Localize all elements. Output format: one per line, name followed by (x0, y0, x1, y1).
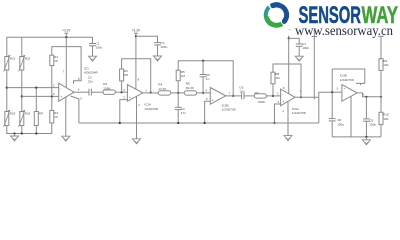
svg-text:+3.3V: +3.3V (62, 29, 71, 33)
capacitor C8 (329, 118, 336, 120)
ground (bridge) (14, 134, 16, 137)
svg-text:22n: 22n (88, 80, 93, 84)
wire bottom rail (bridge) (7, 123, 52, 134)
wire R1 bottom (51, 66, 53, 97)
svg-text:R23: R23 (10, 112, 16, 116)
svg-text:+: + (212, 99, 214, 103)
svg-text:2: 2 (123, 88, 125, 92)
logo swirl teal arc (266, 4, 279, 24)
ground (IC1) (62, 136, 70, 141)
svg-text:47n: 47n (181, 111, 186, 115)
svg-text:AD620AR: AD620AR (84, 71, 99, 75)
svg-text:7: 7 (229, 91, 231, 95)
svg-text:R7: R7 (255, 91, 259, 95)
svg-text:R22: R22 (25, 57, 31, 61)
svg-text:1/2AD708: 1/2AD708 (340, 78, 354, 82)
logo swirl gap (268, 4, 274, 12)
wire IC1 pin 7 supply (65, 37, 67, 87)
logo swirl gap 2 (279, 19, 285, 27)
wire IC2B output (226, 95, 242, 97)
svg-text:100n: 100n (161, 45, 168, 49)
svg-text:3: 3 (53, 92, 55, 96)
wire +3.3V rail to C7 (289, 38, 300, 43)
wire C3 to ground (157, 45, 159, 56)
wire IC2B pin 5 to bus (205, 101, 211, 123)
svg-text:10K: 10K (383, 63, 388, 67)
svg-text:+: + (282, 100, 284, 104)
svg-text:1: 1 (363, 92, 365, 96)
wire R4 to R6 node (171, 92, 184, 94)
wire IC3A feedback loop (272, 84, 274, 96)
svg-text:-: - (60, 86, 61, 90)
svg-text:1M: 1M (181, 74, 186, 78)
wire R6 to IC2B pin 6 (197, 92, 211, 94)
wire IC3B top rail (332, 69, 365, 83)
svg-text:3: 3 (123, 96, 125, 100)
ground (output) (365, 137, 367, 140)
svg-text:8: 8 (138, 78, 140, 82)
svg-text:1K: 1K (54, 115, 58, 119)
svg-text:4: 4 (138, 103, 140, 107)
ground (C3) (154, 56, 162, 61)
wire IC2A pin 8 supply (135, 36, 137, 89)
svg-text:1: 1 (145, 88, 147, 92)
svg-text:RP: RP (39, 112, 43, 116)
wire node B to IC1 pin 3 (22, 95, 59, 97)
wire C6 to R7 (244, 95, 254, 97)
capacitor C4 (177, 93, 179, 107)
ground (C7) (295, 56, 303, 61)
wire R7 to IC3A pin 2 (267, 95, 281, 97)
resistor R3 (bridge divider) (50, 111, 54, 124)
svg-text:+: + (60, 95, 62, 99)
svg-text:82.3K: 82.3K (186, 86, 195, 90)
svg-text:1/2AD708: 1/2AD708 (292, 111, 306, 115)
logo swirl blue arc (273, 5, 287, 21)
wire +3.3V top rail (7, 37, 93, 56)
svg-text:-: - (129, 87, 130, 91)
wire C7 to ground (298, 46, 300, 56)
wire IC3A pin 4 to ground (287, 101, 289, 135)
wire IC2A pin 4 to ground (136, 96, 138, 139)
resistor R22 (20, 57, 24, 71)
wire R2 to IC2A pin 2 (115, 91, 127, 93)
svg-text:2: 2 (277, 92, 279, 96)
resistor R6 (184, 91, 196, 95)
op-amp IC3B 1/2AD708 (342, 85, 357, 102)
capacitor C9 (365, 97, 367, 119)
wire C8 column (331, 69, 333, 118)
wire R21 to node A (6, 70, 8, 112)
svg-text:200K: 200K (103, 86, 111, 90)
wire C1 to ground (92, 46, 94, 56)
node reference bus (79, 122, 319, 124)
svg-text:-: - (282, 92, 283, 96)
resistor R8 (IC3A feedback 1M) (271, 72, 275, 84)
svg-text:100n: 100n (369, 123, 376, 127)
capacitor C3 (154, 42, 161, 44)
resistor R1 (gain) (50, 55, 54, 65)
svg-text:7: 7 (63, 69, 65, 73)
svg-text:+: + (129, 95, 131, 99)
svg-text:3: 3 (277, 100, 279, 104)
wire bus riser / step (319, 92, 332, 123)
resistor R23 (5, 112, 9, 126)
capacitor C2 (88, 89, 90, 96)
wire R22 to node B (21, 70, 23, 112)
wire bottom rail (output) (332, 136, 381, 138)
svg-text:6: 6 (206, 89, 208, 93)
resistor R21 (5, 57, 9, 71)
wire IC3B pin 5 input (332, 91, 342, 93)
capacitor C7 (296, 43, 303, 45)
svg-text:+3.3V: +3.3V (132, 29, 141, 33)
svg-text:5: 5 (206, 97, 208, 101)
svg-text:2: 2 (53, 84, 55, 88)
svg-text:1n: 1n (206, 77, 210, 81)
power +3.3V (R9) (378, 35, 384, 37)
wire R10 to bottom rail (380, 125, 382, 137)
svg-text:14.7K: 14.7K (158, 87, 167, 91)
ground (IC2A) (133, 139, 141, 144)
wire IC3B output (357, 93, 381, 97)
svg-text:R24: R24 (25, 112, 31, 116)
wire R9 to output node (380, 70, 382, 96)
svg-text:1M: 1M (124, 73, 129, 77)
svg-text:-: - (212, 90, 213, 94)
svg-text:1/2AD708: 1/2AD708 (144, 107, 158, 111)
wire R3 top to pin3 node (51, 96, 53, 110)
svg-text:1M: 1M (275, 76, 280, 80)
op-amp IC2A 1/2AD708 (127, 85, 142, 102)
svg-text:100n: 100n (96, 45, 103, 49)
wire IC1 pin 5 to bus (71, 96, 79, 123)
wire +3.3V rail to C3 (136, 36, 158, 42)
wire C2 to R2 (91, 91, 103, 93)
svg-text:100n: 100n (337, 122, 344, 126)
svg-text:8: 8 (283, 86, 285, 90)
resistor R7 (254, 94, 266, 98)
wire IC1 pin 4 to ground (65, 97, 67, 136)
resistor R9 (379, 59, 383, 71)
wire node A to IC1 pin 2 (7, 87, 59, 89)
ground (IC3A) (284, 136, 292, 141)
resistor R4 (158, 91, 171, 95)
wire IC3A output (295, 96, 319, 98)
svg-text:+: + (344, 87, 346, 91)
svg-text:1/2AD708: 1/2AD708 (222, 108, 236, 112)
op-amp IC3A 1/2AD708 (281, 89, 295, 106)
wire IC3A pin 8 supply (288, 38, 290, 93)
wire IC3B pin 4 down (350, 96, 352, 137)
op-amp IC1 AD620AR (59, 83, 74, 101)
resistor R24 (20, 112, 24, 126)
svg-text:100n: 100n (302, 46, 309, 50)
svg-text:5: 5 (80, 97, 82, 101)
wire R22 top (21, 37, 23, 56)
capacitor C1 (89, 43, 96, 45)
svg-text:1K: 1K (54, 59, 58, 63)
resistor R5 (IC2B feedback 1M) (176, 70, 180, 81)
wire IC2A output (143, 92, 158, 94)
resistor R10 (379, 112, 383, 124)
wire IC2A pin 3 (120, 100, 128, 123)
wire R1 loop to pin 8 (52, 47, 81, 84)
op-amp IC2B 1/2AD708 (210, 88, 225, 105)
svg-text:200K: 200K (258, 100, 266, 104)
svg-text:5: 5 (337, 87, 339, 91)
power +3.3V (stage 3) (288, 36, 290, 39)
svg-text:6: 6 (78, 88, 80, 92)
wire RP column (35, 88, 37, 112)
ground (C1) (89, 56, 97, 61)
svg-text:4: 4 (282, 110, 284, 114)
svg-text:R21: R21 (10, 57, 16, 61)
logo swirl green arc (267, 18, 282, 25)
wire +3.3V drop (IC3B) (313, 30, 315, 100)
capacitor C5 (202, 61, 204, 74)
wire IC1 output (74, 91, 89, 93)
wire IC2B feedback loop (177, 81, 179, 93)
wire output node to R10 (380, 97, 382, 113)
svg-text:10K: 10K (383, 117, 388, 121)
resistor R3 (IC2A feedback 1M) (120, 69, 124, 81)
svg-text:www.sensorway.cn: www.sensorway.cn (295, 23, 393, 38)
svg-text:™: ™ (288, 28, 291, 32)
resistor RP (34, 112, 38, 126)
wire IC2A feedback loop (121, 81, 123, 92)
resistor R2 (103, 90, 115, 94)
capacitor C6 (241, 93, 243, 100)
wire IC3A pin 3 to bus (275, 104, 281, 123)
svg-text:10n: 10n (239, 89, 244, 93)
